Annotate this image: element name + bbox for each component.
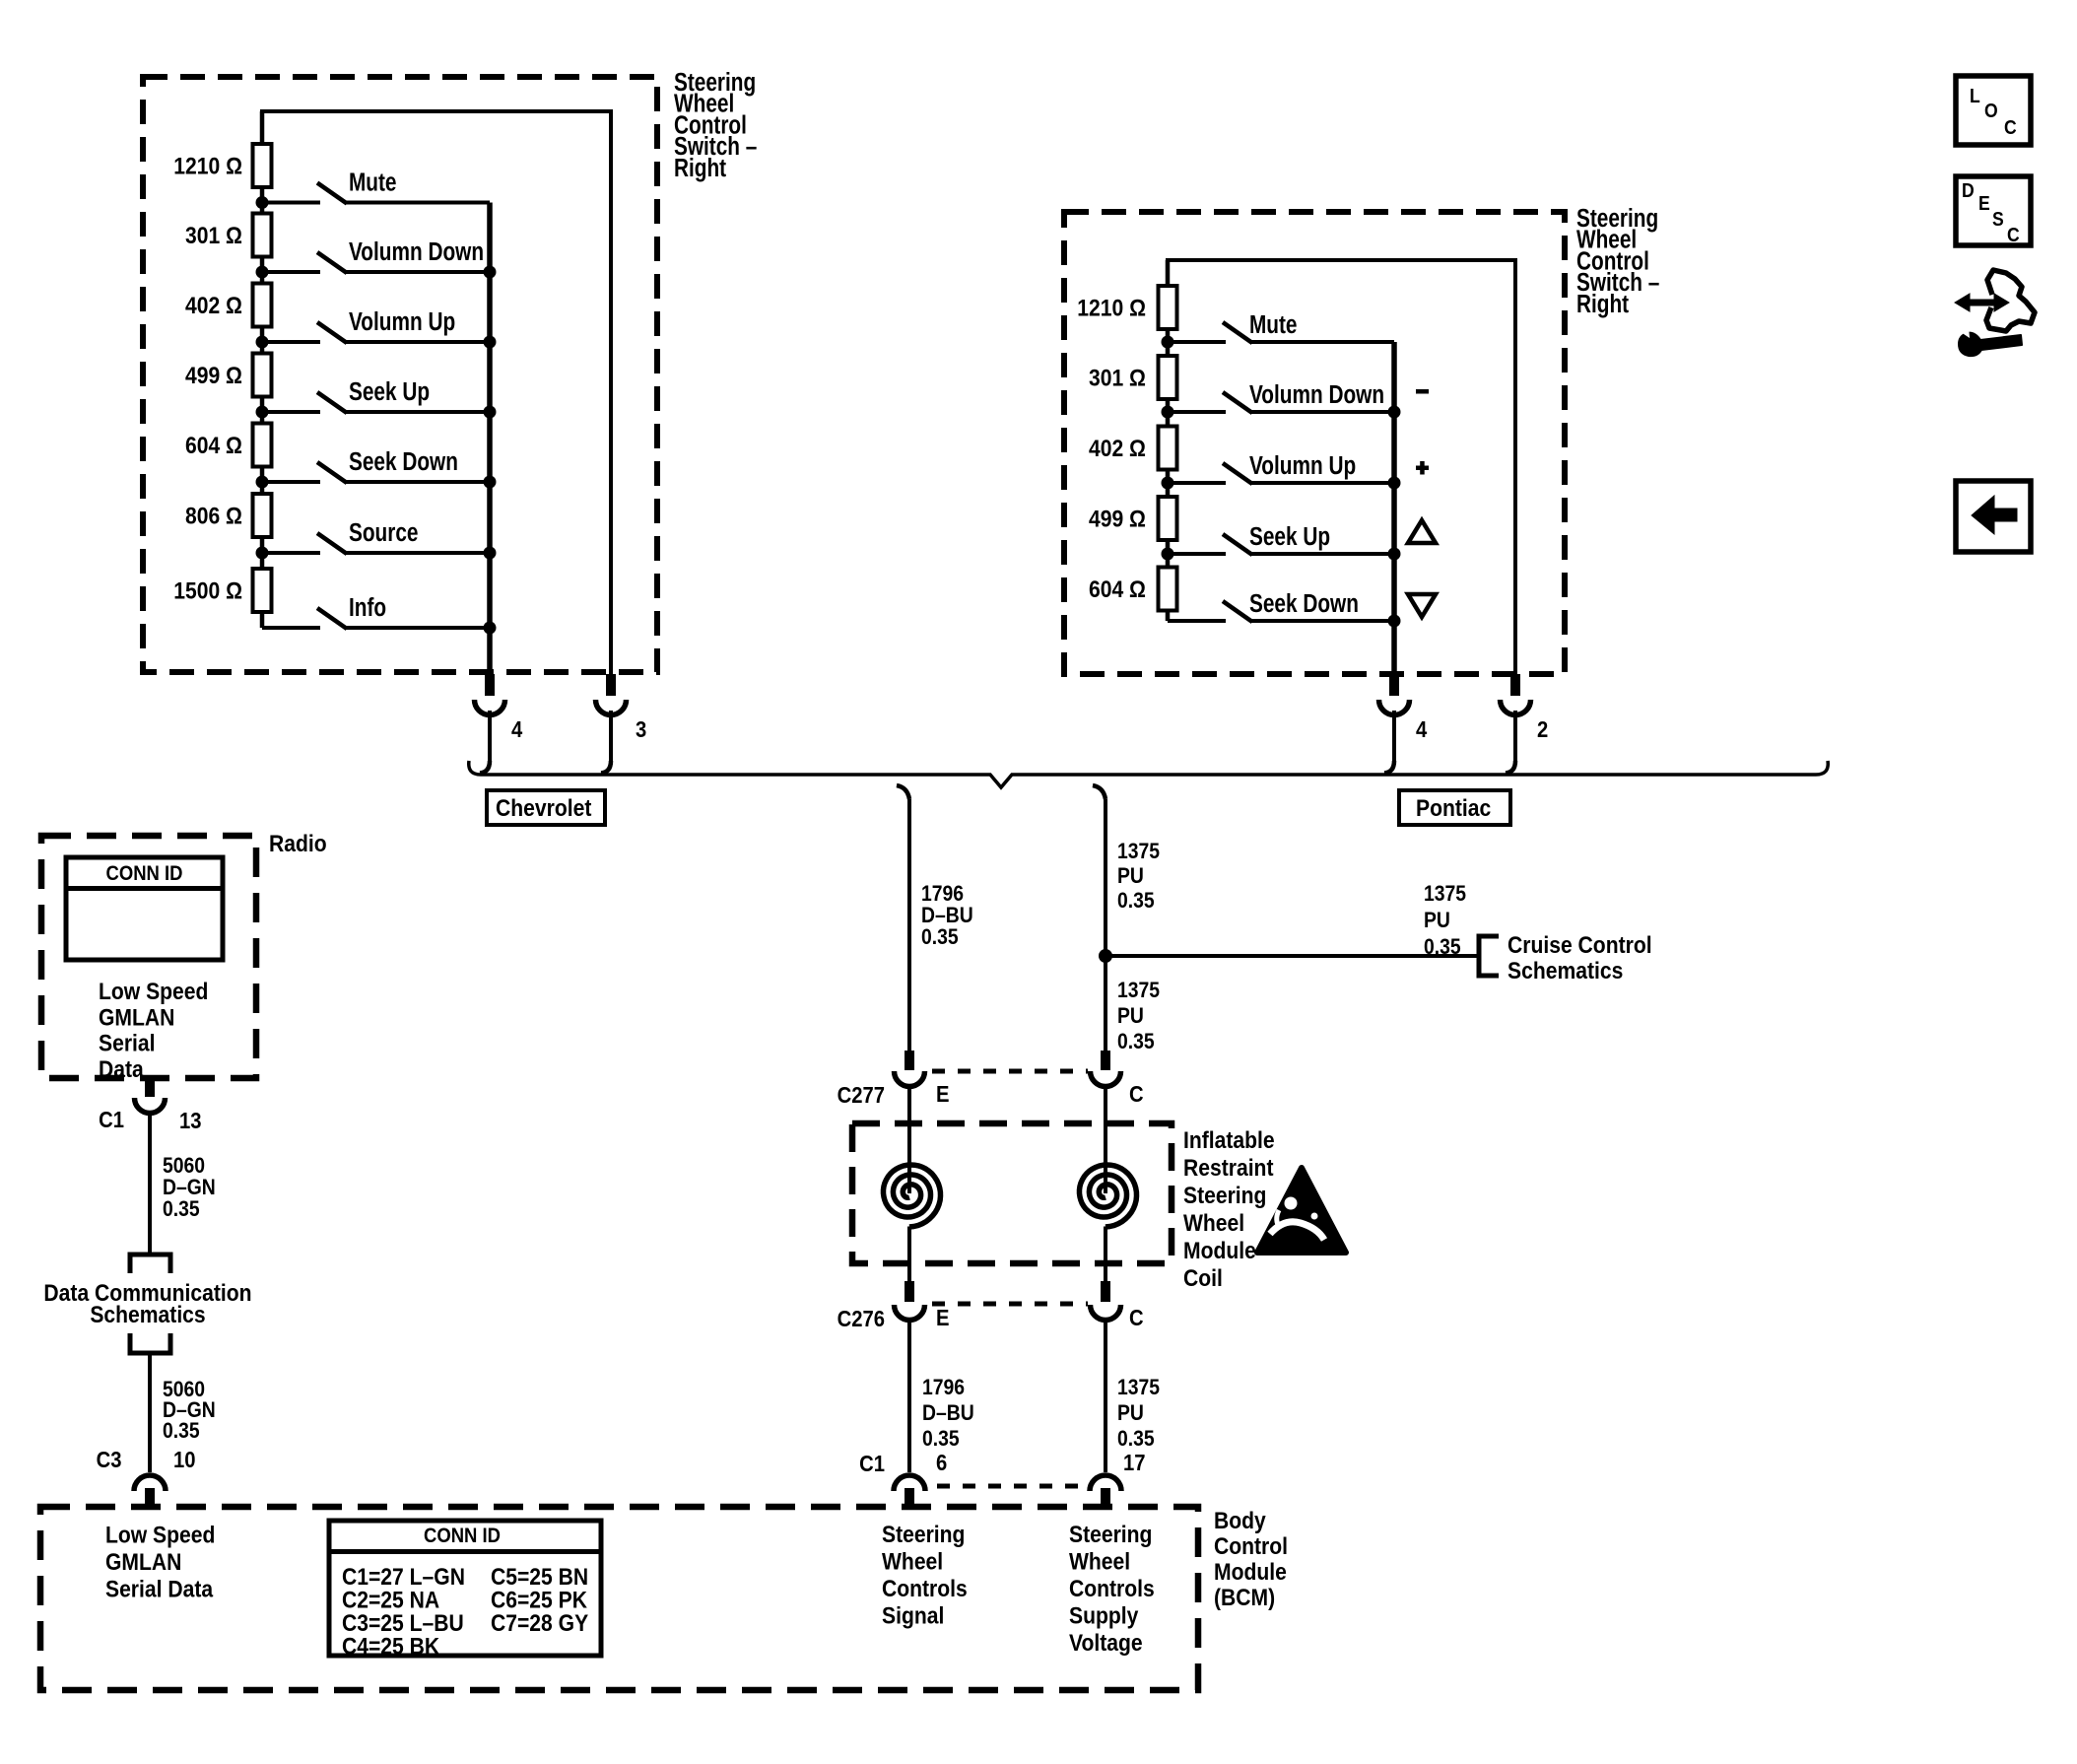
Radio box bbox=[41, 836, 256, 1078]
svg-text:Serial Data: Serial Data bbox=[105, 1576, 214, 1602]
Inflatable Restraint Steering Wheel Module Coil box bbox=[852, 1123, 1172, 1263]
minus symbol bbox=[1416, 389, 1429, 394]
svg-text:E: E bbox=[936, 1305, 950, 1331]
svg-text:Steering: Steering bbox=[882, 1522, 965, 1548]
svg-text:402 Ω: 402 Ω bbox=[185, 293, 242, 319]
svg-text:Inflatable: Inflatable bbox=[1183, 1127, 1275, 1154]
svg-text:C1: C1 bbox=[99, 1107, 124, 1133]
svg-text:E: E bbox=[936, 1081, 950, 1108]
Pontiac label bbox=[1399, 790, 1510, 825]
svg-text:0.35: 0.35 bbox=[1117, 1030, 1155, 1053]
svg-text:Mute: Mute bbox=[349, 168, 397, 196]
svg-text:Wheel: Wheel bbox=[1069, 1548, 1130, 1575]
back arrow icon bbox=[1956, 481, 2031, 552]
dotted link C276 bbox=[932, 1302, 1088, 1307]
svg-text:Seek Down: Seek Down bbox=[1249, 589, 1359, 618]
seek down triangle bbox=[1408, 594, 1436, 617]
BCM CONN ID table bbox=[329, 1521, 601, 1656]
switch Mute left bbox=[262, 201, 320, 205]
service/diagnostic icon bbox=[1986, 270, 2035, 331]
svg-text:Body: Body bbox=[1214, 1508, 1266, 1534]
resistor 1210 Ω right bbox=[1159, 286, 1177, 329]
svg-text:C: C bbox=[2004, 116, 2017, 138]
svg-text:Right: Right bbox=[674, 154, 726, 182]
connector C276 pin C bbox=[1101, 1281, 1110, 1302]
svg-text:Supply: Supply bbox=[1069, 1602, 1139, 1629]
resistor 1210 Ω left bbox=[253, 144, 272, 187]
svg-text:0.35: 0.35 bbox=[163, 1197, 200, 1221]
svg-text:Source: Source bbox=[349, 518, 418, 547]
wire 5060 D-GN upper bbox=[148, 1115, 152, 1253]
svg-text:Controls: Controls bbox=[882, 1576, 968, 1602]
coil spiral right bbox=[1080, 1165, 1137, 1227]
svg-text:Seek Up: Seek Up bbox=[349, 377, 430, 406]
resistor 604 Ω left bbox=[253, 424, 272, 467]
switch Source left bbox=[262, 551, 320, 555]
Chevrolet label bbox=[487, 790, 605, 825]
svg-text:Volumn Down: Volumn Down bbox=[349, 237, 484, 266]
seek up triangle bbox=[1408, 520, 1436, 543]
svg-text:L: L bbox=[1970, 85, 1980, 106]
svg-text:Volumn Down: Volumn Down bbox=[1249, 380, 1384, 409]
svg-text:Coil: Coil bbox=[1183, 1265, 1223, 1292]
svg-text:Schematics: Schematics bbox=[1507, 958, 1623, 984]
svg-text:Schematics: Schematics bbox=[90, 1302, 205, 1328]
connector pin 2 bbox=[1510, 674, 1520, 696]
svg-text:3: 3 bbox=[636, 716, 646, 743]
switch Volumn Up right bbox=[1168, 481, 1226, 485]
svg-text:402 Ω: 402 Ω bbox=[1089, 436, 1146, 462]
svg-text:1210 Ω: 1210 Ω bbox=[1077, 295, 1146, 321]
wire 5060 D-GN lower bbox=[148, 1355, 152, 1472]
svg-text:0.35: 0.35 bbox=[922, 1427, 960, 1451]
coil spiral left bbox=[884, 1165, 941, 1227]
svg-text:1375: 1375 bbox=[1424, 882, 1466, 906]
svg-text:Module: Module bbox=[1214, 1559, 1287, 1586]
Steering Wheel Control Switch - Right (Pontiac) box bbox=[1064, 212, 1565, 674]
svg-text:Module: Module bbox=[1183, 1238, 1256, 1264]
switch Seek Up right bbox=[1168, 552, 1226, 556]
svg-text:S: S bbox=[1992, 208, 2004, 230]
svg-text:6: 6 bbox=[936, 1450, 947, 1476]
svg-text:0.35: 0.35 bbox=[1117, 889, 1155, 913]
switch Seek Down left bbox=[262, 480, 320, 484]
connector C276 pin E bbox=[904, 1281, 914, 1302]
connector C1 pin 6 bbox=[894, 1475, 925, 1491]
svg-text:D: D bbox=[1962, 179, 1975, 201]
connector C277 pin E bbox=[904, 1051, 914, 1070]
svg-text:E: E bbox=[1978, 192, 1990, 214]
resistor 402 Ω right bbox=[1159, 427, 1177, 470]
svg-text:CONN ID: CONN ID bbox=[424, 1525, 501, 1547]
Steering Wheel Control Switch - Right (Chevrolet) box bbox=[143, 77, 657, 672]
svg-text:C3: C3 bbox=[97, 1447, 122, 1473]
svg-text:Pontiac: Pontiac bbox=[1416, 795, 1491, 822]
svg-text:Info: Info bbox=[349, 593, 386, 622]
svg-text:604 Ω: 604 Ω bbox=[1089, 577, 1146, 603]
svg-text:C277: C277 bbox=[837, 1082, 885, 1109]
svg-text:D–GN: D–GN bbox=[163, 1176, 216, 1199]
svg-text:Volumn Up: Volumn Up bbox=[349, 307, 455, 336]
switch Seek Up left bbox=[262, 410, 320, 414]
airbag warning triangle bbox=[1257, 1168, 1346, 1253]
svg-text:1210 Ω: 1210 Ω bbox=[173, 153, 242, 179]
resistor 301 Ω left bbox=[253, 214, 272, 257]
svg-text:Chevrolet: Chevrolet bbox=[496, 795, 592, 822]
dotted link C1 bbox=[937, 1484, 1088, 1489]
svg-text:C4=25 BK: C4=25 BK bbox=[342, 1633, 440, 1660]
svg-text:Control: Control bbox=[1214, 1533, 1288, 1560]
svg-text:1375: 1375 bbox=[1117, 840, 1160, 863]
svg-text:C: C bbox=[1129, 1305, 1144, 1331]
svg-text:PU: PU bbox=[1117, 864, 1144, 888]
svg-text:0.35: 0.35 bbox=[1424, 935, 1461, 959]
svg-text:Cruise Control: Cruise Control bbox=[1507, 932, 1652, 959]
svg-text:1796: 1796 bbox=[922, 1376, 965, 1399]
svg-text:1796: 1796 bbox=[921, 882, 964, 906]
switch Mute right bbox=[1168, 340, 1226, 344]
svg-text:1375: 1375 bbox=[1117, 979, 1160, 1002]
svg-text:301 Ω: 301 Ω bbox=[185, 223, 242, 249]
svg-text:C7=28 GY: C7=28 GY bbox=[491, 1610, 588, 1637]
svg-text:5060: 5060 bbox=[163, 1154, 205, 1178]
svg-text:1500 Ω: 1500 Ω bbox=[173, 577, 242, 604]
svg-text:Wheel: Wheel bbox=[1183, 1210, 1244, 1237]
junction to cruise control bbox=[1099, 949, 1112, 963]
svg-text:PU: PU bbox=[1117, 1401, 1144, 1425]
svg-text:Mute: Mute bbox=[1249, 310, 1298, 339]
svg-text:499 Ω: 499 Ω bbox=[185, 363, 242, 389]
svg-text:Low Speed: Low Speed bbox=[99, 979, 208, 1005]
svg-text:Low Speed: Low Speed bbox=[105, 1522, 215, 1548]
resistor 301 Ω right bbox=[1159, 356, 1177, 399]
svg-text:C1: C1 bbox=[859, 1451, 885, 1477]
resistor 1500 Ω left bbox=[253, 569, 272, 612]
wire 1796 D-BU drop bbox=[897, 785, 909, 799]
svg-text:D–BU: D–BU bbox=[922, 1401, 974, 1425]
switch Volumn Up left bbox=[262, 340, 320, 344]
svg-text:806 Ω: 806 Ω bbox=[185, 503, 242, 529]
cruise control bracket bbox=[1479, 936, 1499, 976]
connector C3 pin 10 bbox=[134, 1475, 166, 1491]
connector C1 pin 13 (radio) bbox=[145, 1077, 155, 1097]
DESC icon bbox=[1956, 176, 2031, 245]
svg-text:C: C bbox=[2007, 224, 2020, 245]
svg-text:Seek Up: Seek Up bbox=[1249, 522, 1330, 551]
svg-text:Steering: Steering bbox=[1183, 1183, 1266, 1209]
svg-text:301 Ω: 301 Ω bbox=[1089, 365, 1146, 391]
svg-text:Signal: Signal bbox=[882, 1602, 944, 1629]
svg-text:Restraint: Restraint bbox=[1183, 1155, 1274, 1182]
svg-text:0.35: 0.35 bbox=[1117, 1427, 1155, 1451]
svg-text:GMLAN: GMLAN bbox=[99, 1004, 174, 1031]
wire: top bus of left switch box bbox=[262, 111, 611, 674]
resistor 499 Ω left bbox=[253, 354, 272, 397]
svg-text:Radio: Radio bbox=[269, 831, 327, 857]
connector pin 4 bbox=[485, 674, 495, 696]
svg-text:PU: PU bbox=[1117, 1004, 1144, 1028]
svg-text:O: O bbox=[1984, 100, 1998, 121]
wire 1375 PU lower bbox=[1104, 1322, 1107, 1472]
Body Control Module (BCM) box bbox=[40, 1507, 1198, 1690]
wire into left coil bbox=[907, 1088, 911, 1193]
data communication schematics reference bbox=[130, 1255, 170, 1273]
switch Volumn Down left bbox=[262, 270, 320, 274]
resistor 604 Ω right bbox=[1159, 568, 1177, 611]
svg-text:D–BU: D–BU bbox=[921, 904, 973, 927]
connector pin 4 bbox=[1389, 674, 1399, 696]
svg-text:Seek Down: Seek Down bbox=[349, 447, 458, 476]
resistor 402 Ω left bbox=[253, 284, 272, 327]
svg-text:Volumn Up: Volumn Up bbox=[1249, 451, 1356, 480]
connector C277 pin C bbox=[1101, 1051, 1110, 1070]
svg-text:499 Ω: 499 Ω bbox=[1089, 506, 1146, 532]
resistor 806 Ω left bbox=[253, 494, 272, 537]
wire: switch output bus right bbox=[1391, 342, 1397, 674]
svg-text:(BCM): (BCM) bbox=[1214, 1585, 1275, 1611]
svg-text:GMLAN: GMLAN bbox=[105, 1549, 181, 1576]
svg-text:13: 13 bbox=[179, 1108, 202, 1134]
svg-text:Steering: Steering bbox=[1069, 1522, 1152, 1548]
switch Info left bbox=[262, 626, 320, 630]
wire into right coil bbox=[1104, 1088, 1107, 1193]
harness brace bus bbox=[469, 761, 1829, 787]
svg-text:CONN ID: CONN ID bbox=[106, 862, 183, 885]
svg-text:2: 2 bbox=[1537, 716, 1548, 743]
svg-text:Controls: Controls bbox=[1069, 1576, 1155, 1602]
resistor chain left bbox=[260, 111, 265, 628]
svg-text:10: 10 bbox=[173, 1447, 196, 1473]
svg-text:4: 4 bbox=[1416, 716, 1427, 743]
connector C1 pin 17 bbox=[1090, 1475, 1121, 1491]
resistor 499 Ω right bbox=[1159, 497, 1177, 540]
connector pin 3 bbox=[606, 674, 616, 696]
svg-text:Voltage: Voltage bbox=[1069, 1630, 1143, 1657]
svg-text:0.35: 0.35 bbox=[163, 1419, 200, 1443]
svg-text:604 Ω: 604 Ω bbox=[185, 433, 242, 459]
svg-text:Data: Data bbox=[99, 1056, 144, 1083]
resistor chain right bbox=[1166, 260, 1171, 621]
svg-text:1375: 1375 bbox=[1117, 1376, 1160, 1399]
svg-text:PU: PU bbox=[1424, 909, 1450, 932]
svg-text:0.35: 0.35 bbox=[921, 925, 959, 949]
svg-text:C276: C276 bbox=[837, 1306, 885, 1332]
svg-text:4: 4 bbox=[511, 716, 522, 743]
svg-text:17: 17 bbox=[1123, 1450, 1146, 1476]
switch Volumn Down right bbox=[1168, 410, 1226, 414]
svg-text:Serial: Serial bbox=[99, 1030, 156, 1056]
LOC icon bbox=[1956, 76, 2031, 145]
wire 1375 PU drop bbox=[1093, 785, 1105, 799]
wire: top bus of right switch box bbox=[1168, 260, 1515, 674]
wire: switch output bus left bbox=[487, 203, 493, 675]
plus symbol bbox=[1416, 466, 1429, 471]
svg-text:Wheel: Wheel bbox=[882, 1548, 943, 1575]
svg-text:C: C bbox=[1129, 1081, 1144, 1108]
dotted link C277 bbox=[932, 1069, 1088, 1074]
svg-text:Right: Right bbox=[1576, 290, 1629, 318]
wire 1796 D-BU lower bbox=[907, 1322, 911, 1472]
radio CONN ID table bbox=[66, 857, 223, 960]
switch Seek Down right bbox=[1168, 619, 1226, 623]
